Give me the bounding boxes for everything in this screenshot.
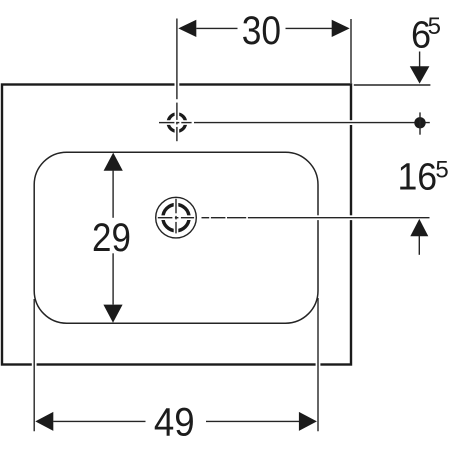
washbasin outer rim rectangle — [2, 85, 351, 365]
svg-text:30: 30 — [242, 9, 281, 53]
dimension 6.5: dot terminator — [414, 112, 425, 134]
dimension 49: label — [154, 401, 195, 445]
dimension 16.5: up arrow — [410, 219, 428, 255]
svg-text:16: 16 — [397, 157, 437, 199]
dimension 29: dimension line — [112, 171, 114, 305]
dimension 29: up arrowhead — [104, 153, 123, 171]
svg-text:5: 5 — [428, 13, 441, 40]
svg-text:5: 5 — [435, 156, 448, 183]
tap hole bold circle — [164, 110, 189, 135]
dimension 30: right arrowhead — [332, 20, 350, 37]
drain centerline horizontal (to dim 16.5 arrow) — [158, 217, 430, 219]
dimension 49: left extension line — [33, 299, 35, 431]
dimension 30: left arrowhead — [178, 20, 196, 37]
tap hole centerline vertical (also ext. line of dim 30) — [176, 19, 178, 142]
tap hole centerline horizontal (to dim 6.5 dot) — [159, 122, 430, 124]
svg-text:29: 29 — [92, 216, 131, 260]
drain centerline vertical — [175, 199, 177, 234]
dimension 6.5: down arrow — [410, 52, 430, 84]
drain inner bold circle — [160, 201, 193, 234]
dimension 29: down arrowhead — [103, 305, 122, 323]
white casing gaps where thin lines cross the rim — [34, 81, 355, 370]
dimension 49: dimension line — [53, 420, 299, 422]
dimension 29: label — [92, 216, 131, 260]
svg-text:49: 49 — [154, 401, 195, 445]
dimension 16.5: label — [397, 156, 448, 198]
basin bowl rounded outline — [34, 152, 318, 323]
white casing gap where drain centerline crosses bowl edge — [314, 215, 323, 220]
dimension 6.5: label — [411, 13, 441, 57]
dimension 30: extension line right — [350, 19, 352, 83]
drain outer circle — [156, 197, 197, 238]
dimension 30: dimension line — [196, 27, 332, 29]
dimension 49: right extension line — [317, 298, 319, 431]
dimension 49: right arrowhead — [299, 412, 317, 431]
dimension 30: label — [242, 9, 281, 53]
dimension 49: left arrowhead — [35, 412, 53, 431]
dimension 6.5: top edge extension line — [354, 84, 431, 86]
